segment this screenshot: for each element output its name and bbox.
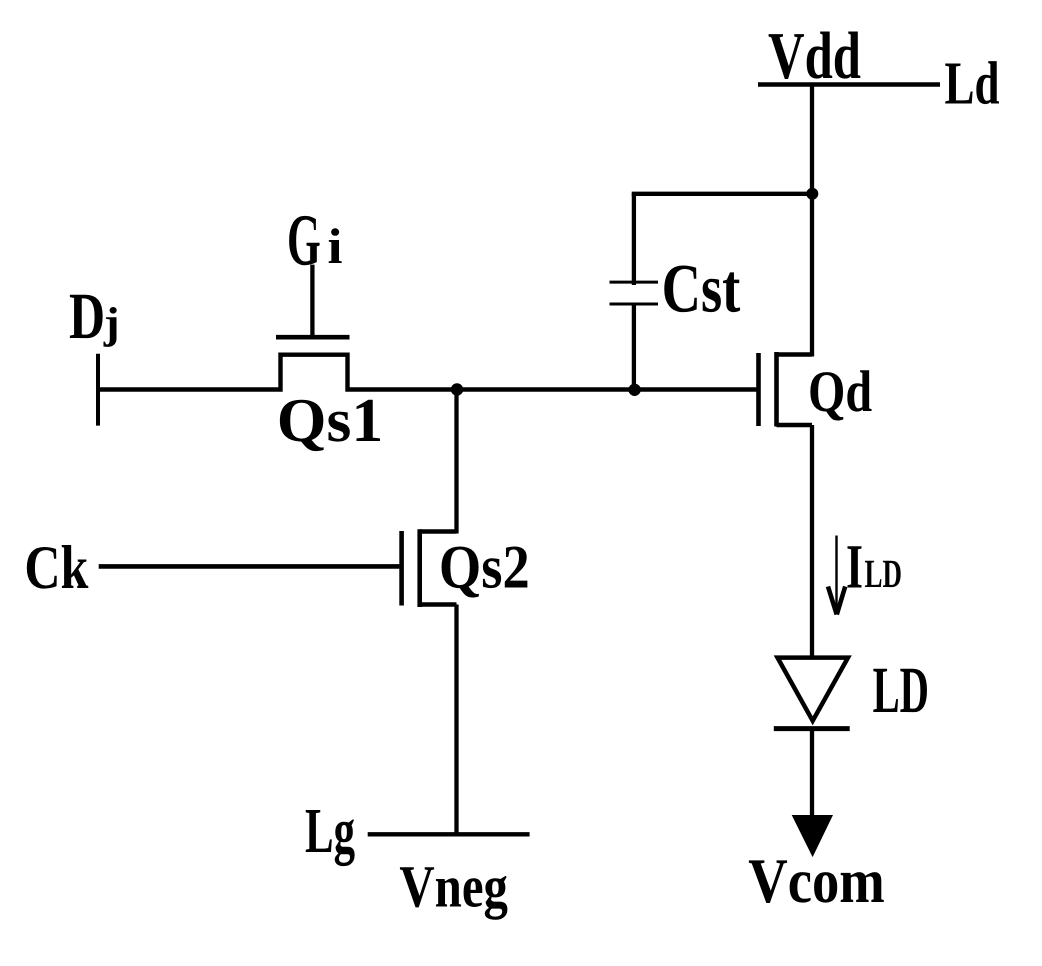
wire Gi gate lead — [310, 265, 314, 337]
diode LD triangle — [778, 658, 849, 721]
junction dot at Vdd branch node — [806, 188, 818, 200]
transistor Qs2 — [402, 529, 457, 607]
svg-text:Qs1: Qs1 — [277, 386, 384, 455]
svg-text:I: I — [846, 531, 863, 601]
svg-text:i: i — [328, 218, 343, 274]
net label Gi — [287, 200, 343, 281]
transistor Qs1 gate bar — [276, 335, 350, 340]
net label Dj — [69, 280, 120, 353]
current label ILD — [846, 531, 902, 601]
wire Cst top lead — [632, 194, 636, 285]
svg-text:Ld: Ld — [945, 51, 1000, 118]
svg-text:D: D — [69, 280, 105, 353]
svg-text:LD: LD — [865, 551, 903, 596]
svg-text:Qs2: Qs2 — [439, 534, 530, 602]
capacitor Cst — [610, 282, 659, 304]
transistor Qd — [759, 352, 813, 427]
wire Cst top to Vdd branch node — [632, 192, 812, 196]
transistor label Qd — [808, 359, 872, 424]
wire Vdd rail to Qd drain — [810, 85, 814, 357]
wire Ck gate lead — [99, 564, 400, 569]
svg-text:Vneg: Vneg — [399, 854, 508, 921]
svg-text:Lg: Lg — [305, 795, 355, 867]
svg-text:G: G — [287, 200, 321, 281]
junction dot at Qs1/Qs2 node — [451, 383, 463, 395]
svg-text:j: j — [103, 299, 120, 348]
terminal bar Dj — [96, 354, 100, 426]
wire Qs2 source to Vneg rail — [454, 605, 458, 835]
wire Qd source to LD anode — [810, 425, 814, 660]
current arrow ILD — [828, 536, 845, 615]
diode LD cathode bar — [774, 726, 850, 731]
Vdd supply rail — [758, 82, 940, 87]
junction dot at storage node — [628, 384, 640, 396]
wire main storage node row with Qs1 channel bump — [98, 355, 757, 390]
wire node to Qs2 drain — [454, 390, 458, 534]
wire LD cathode to Vcom arrow — [810, 729, 814, 817]
svg-text:Ck: Ck — [24, 534, 88, 602]
Vneg rail — [368, 832, 530, 836]
svg-text:Vcom: Vcom — [748, 845, 885, 916]
arrowhead to Vcom — [793, 816, 833, 857]
svg-text:Vdd: Vdd — [768, 19, 861, 93]
svg-text:LD: LD — [873, 654, 929, 727]
svg-text:Qd: Qd — [808, 359, 872, 424]
wire Cst bottom lead — [632, 304, 636, 390]
svg-text:Cst: Cst — [662, 250, 741, 327]
